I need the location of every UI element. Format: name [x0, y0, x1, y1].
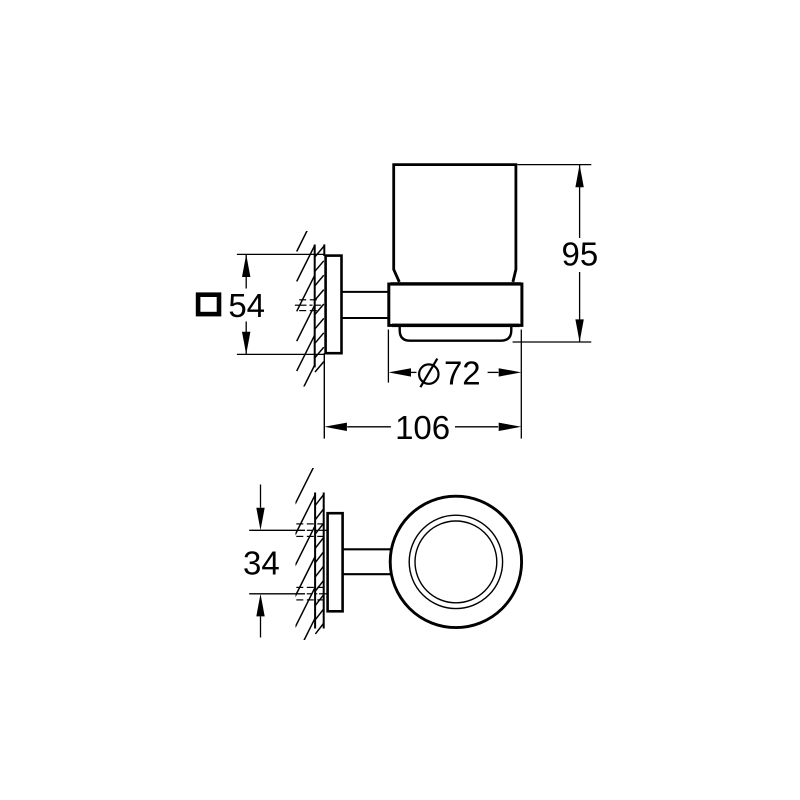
glass bottom side view	[400, 327, 512, 341]
dim 34 line lower	[260, 616, 262, 637]
glass rim circle plan view	[409, 515, 502, 608]
mounting plate side view	[326, 256, 342, 354]
dim 106 line left segment	[347, 426, 391, 428]
dim 95 arrow up	[575, 165, 583, 188]
glass tumbler side view	[394, 165, 516, 282]
wall chevron ticks side view	[315, 246, 324, 372]
wall chevron ticks plan view	[315, 495, 323, 634]
diameter symbol	[419, 364, 438, 383]
svg-text:34: 34	[243, 545, 280, 582]
holder ring body side view	[389, 284, 522, 325]
dim 95 line upper	[579, 165, 581, 238]
wall back line upper segment	[323, 244, 325, 256]
dim 34 top extension line	[249, 529, 305, 531]
square profile symbol	[198, 295, 219, 314]
arm top edge plan view	[343, 548, 392, 550]
svg-text:95: 95	[562, 236, 599, 273]
screw hole hidden lines side view	[295, 300, 321, 311]
arm top edge side view	[342, 291, 389, 293]
dim 54 top extension line	[237, 253, 324, 255]
dim 106 arrow left	[324, 423, 347, 431]
arm bottom edge side view	[342, 317, 389, 319]
screw hole hidden lines plan view	[296, 524, 326, 600]
wall hatch side view	[297, 216, 315, 402]
svg-text:72: 72	[444, 354, 481, 391]
wall surface line side view	[314, 245, 316, 368]
dim 72 line segment	[411, 371, 417, 373]
glass inner circle plan view	[415, 521, 497, 603]
svg-text:54: 54	[228, 287, 265, 324]
dim 34 line upper	[260, 485, 262, 508]
wall hatch plan view	[295, 464, 315, 658]
holder ring outer circle plan view	[390, 496, 521, 627]
wall back line lower segment / 106 left extension	[323, 353, 325, 439]
wall back line plan view	[323, 493, 325, 629]
arm bottom edge plan view	[343, 573, 392, 575]
dim 95 bottom extension line	[513, 341, 592, 343]
dim 72 left extension line	[387, 330, 389, 383]
dim 54 bottom extension line	[237, 353, 324, 355]
dim 72/106 right extension line	[520, 330, 522, 439]
dim 54 line lower	[245, 322, 247, 355]
svg-text:106: 106	[395, 409, 450, 446]
glass seat thick line	[391, 282, 521, 285]
dim 34 arrow up	[256, 594, 264, 617]
dim 106 line right segment	[455, 426, 498, 428]
wall surface line plan view	[314, 493, 316, 629]
dim 106 arrow right	[499, 423, 522, 431]
dim 54 arrow down	[242, 332, 250, 355]
dim 72 arrow right	[499, 368, 522, 376]
dim 95 line lower	[579, 272, 581, 342]
dim 95 arrow down	[575, 319, 583, 342]
dim 34 arrow down	[256, 508, 264, 531]
mounting plate plan view	[328, 513, 343, 611]
holder bottom thick line	[392, 324, 520, 328]
dim 54 line upper	[245, 254, 247, 288]
dim 54 arrow up	[242, 254, 250, 277]
dim 72 arrow left	[388, 368, 411, 376]
dim 34 bottom extension line	[249, 593, 305, 595]
dim 95 top extension line	[517, 164, 591, 166]
